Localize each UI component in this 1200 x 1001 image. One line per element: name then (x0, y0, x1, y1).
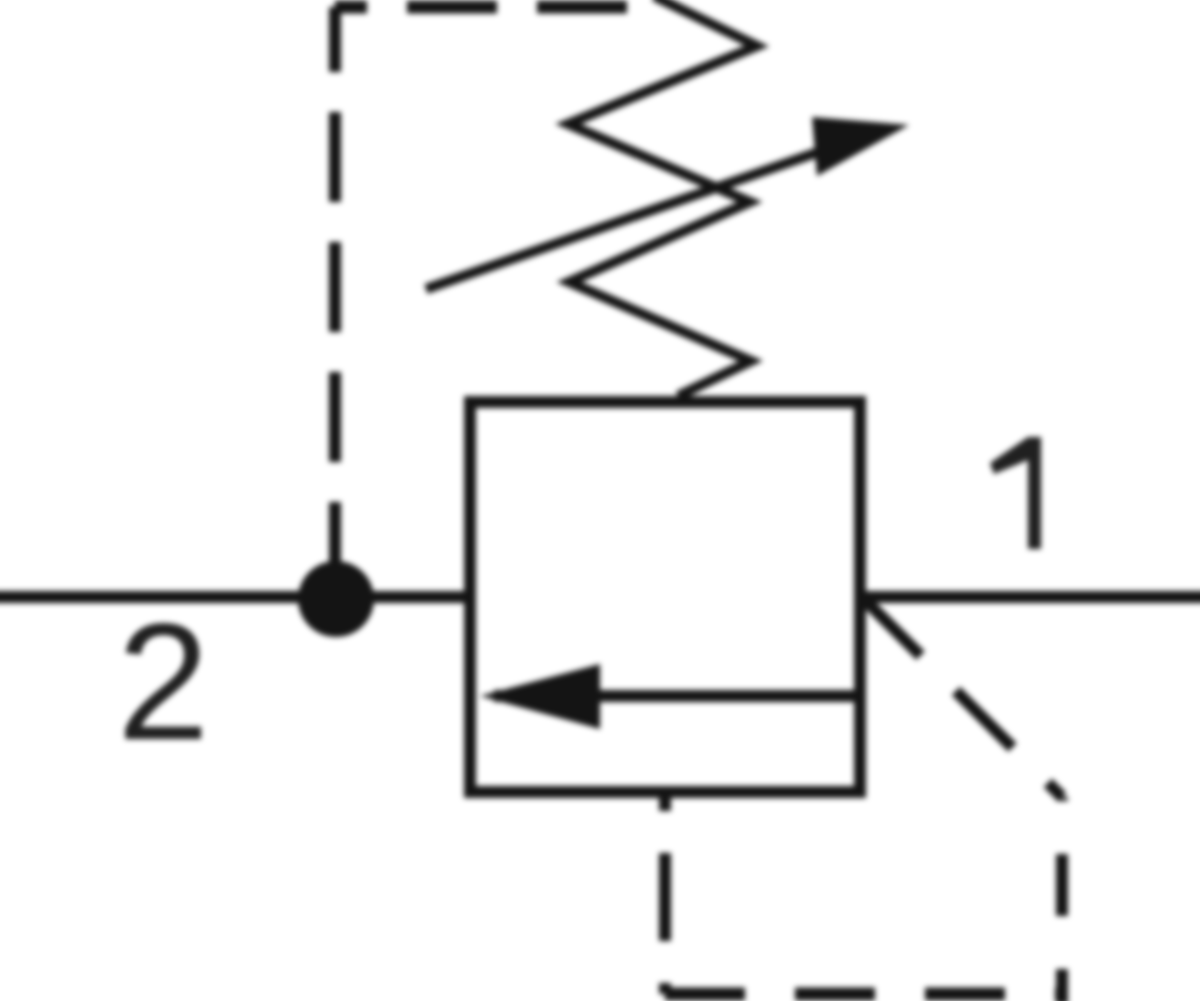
valve envelope box (470, 402, 860, 792)
flow path line inside valve (494, 690, 860, 702)
spring (568, 0, 757, 396)
port label 1 (990, 437, 1041, 549)
node junction dot (298, 561, 374, 637)
pilot line dashed vertical (329, 7, 341, 598)
wire port 1 line (860, 591, 1200, 603)
drain line dashed right vertical (1056, 797, 1068, 1001)
flow arrowhead (480, 664, 600, 729)
pilot line dashed diagonal to port 1 (866, 601, 1062, 797)
adjustment arrow shaft (426, 150, 824, 289)
drain line dashed bottom horizontal (665, 988, 1062, 1001)
drain line dashed vertical from valve bottom (659, 793, 671, 994)
adjustment arrowhead (812, 117, 909, 176)
pilot line dashed horizontal (335, 1, 660, 14)
wire port 2 line (0, 591, 470, 603)
svg-text:2: 2 (117, 590, 209, 775)
